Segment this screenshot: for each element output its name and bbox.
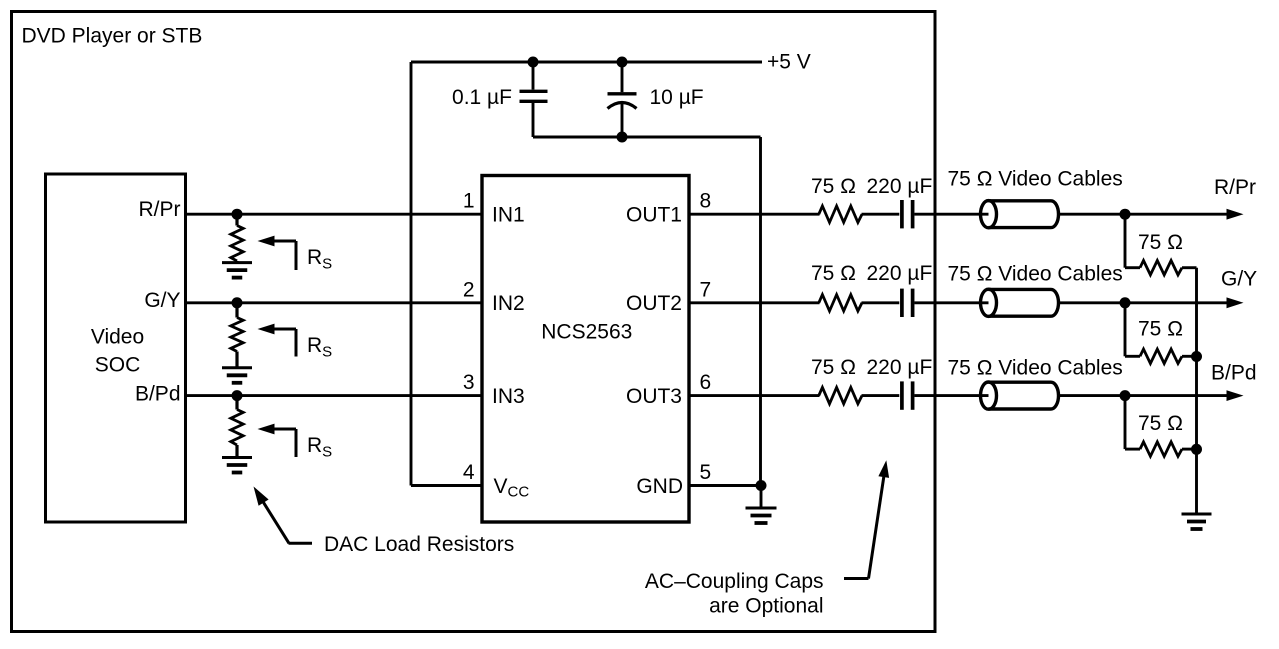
svg-text:220 µF: 220 µF <box>867 262 933 285</box>
svg-text:OUT2: OUT2 <box>626 292 682 315</box>
svg-text:DVD Player or STB: DVD Player or STB <box>22 25 203 48</box>
svg-text:GND: GND <box>636 475 683 498</box>
svg-text:7: 7 <box>700 278 712 301</box>
svg-text:4: 4 <box>463 461 475 484</box>
svg-text:are Optional: are Optional <box>709 594 823 617</box>
svg-text:R/Pr: R/Pr <box>1214 176 1256 199</box>
svg-text:75 Ω: 75 Ω <box>811 356 856 379</box>
svg-text:3: 3 <box>463 371 475 394</box>
svg-text:IN3: IN3 <box>492 385 525 408</box>
svg-text:G/Y: G/Y <box>1221 268 1257 291</box>
svg-text:6: 6 <box>700 371 712 394</box>
svg-text:R/Pr: R/Pr <box>139 198 181 221</box>
svg-text:B/Pd: B/Pd <box>135 383 181 406</box>
svg-text:NCS2563: NCS2563 <box>541 321 632 344</box>
svg-text:IN1: IN1 <box>492 204 525 227</box>
svg-text:5: 5 <box>700 461 712 484</box>
svg-text:2: 2 <box>463 278 475 301</box>
svg-text:75 Ω Video Cables: 75 Ω Video Cables <box>948 168 1123 191</box>
svg-text:OUT1: OUT1 <box>626 204 682 227</box>
svg-text:220 µF: 220 µF <box>867 356 933 379</box>
svg-text:75 Ω: 75 Ω <box>811 175 856 198</box>
svg-text:75 Ω Video Cables: 75 Ω Video Cables <box>948 356 1123 379</box>
svg-text:+5 V: +5 V <box>767 51 811 74</box>
svg-text:OUT3: OUT3 <box>626 385 682 408</box>
svg-text:75 Ω: 75 Ω <box>811 262 856 285</box>
svg-text:75 Ω: 75 Ω <box>1138 412 1183 435</box>
svg-text:Video: Video <box>91 326 144 349</box>
svg-text:75 Ω Video Cables: 75 Ω Video Cables <box>948 263 1123 286</box>
svg-text:G/Y: G/Y <box>144 289 180 312</box>
svg-text:1: 1 <box>463 190 475 213</box>
svg-text:AC–Coupling Caps: AC–Coupling Caps <box>645 570 824 593</box>
svg-text:IN2: IN2 <box>492 292 525 315</box>
svg-text:0.1 µF: 0.1 µF <box>452 86 512 109</box>
svg-text:SOC: SOC <box>95 354 141 377</box>
svg-text:8: 8 <box>700 190 712 213</box>
svg-text:75 Ω: 75 Ω <box>1138 231 1183 254</box>
svg-text:10 µF: 10 µF <box>650 86 704 109</box>
svg-text:DAC Load Resistors: DAC Load Resistors <box>324 533 514 556</box>
svg-text:220 µF: 220 µF <box>867 175 933 198</box>
svg-text:B/Pd: B/Pd <box>1211 362 1257 385</box>
svg-text:75 Ω: 75 Ω <box>1138 318 1183 341</box>
